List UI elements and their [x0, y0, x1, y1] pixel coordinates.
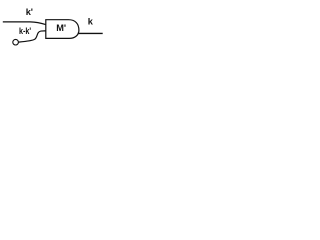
- svg-text:M': M': [56, 23, 66, 33]
- svg-text:k: k: [88, 17, 94, 27]
- svg-text:k': k': [26, 7, 33, 17]
- svg-text:k-k': k-k': [19, 26, 31, 36]
